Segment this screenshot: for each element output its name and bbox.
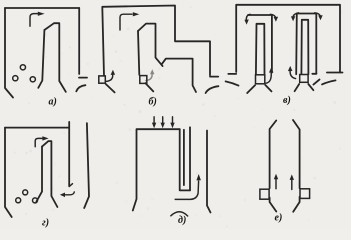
svg-text:а): а) bbox=[49, 97, 57, 108]
diagram a) outer wall left with flare bbox=[5, 8, 13, 98]
diagram e) up arrow 2 bbox=[291, 180, 293, 190]
diagram g) inner tube left bbox=[36, 147, 42, 202]
diagram g) wall end tick bbox=[69, 184, 72, 187]
diagram v) cleanout box tube2 bbox=[300, 75, 308, 83]
diagram d) inner channel v2 bbox=[183, 130, 185, 185]
diagram e) left wall lower bbox=[270, 198, 277, 212]
diagram v) up arrow unit1 bbox=[266, 73, 271, 84]
diagram v) cap1 right wall bbox=[271, 15, 273, 73]
diagram d) down arrows bbox=[153, 117, 155, 123]
diagram v) dash left bbox=[226, 81, 239, 85]
svg-text:д): д) bbox=[178, 215, 186, 226]
diagram d) right wall bbox=[207, 131, 211, 213]
diagram v) foot right bbox=[327, 72, 343, 74]
diagram b) cleanout box left bbox=[99, 76, 106, 83]
diagram d) left wall bbox=[133, 129, 137, 210]
diagram v) flares below tube1 bbox=[247, 85, 255, 93]
diagram g) channel left wall bbox=[68, 122, 70, 186]
diagram a) outer wall top bbox=[5, 7, 79, 9]
diagram a) inner tube left wall bbox=[38, 30, 44, 88]
diagram d) inner channel v3 bbox=[189, 127, 191, 190]
diagram e) left wall bbox=[270, 121, 277, 189]
diagram b) flow arrow top bbox=[120, 14, 132, 30]
diagram v) cap2 flare bbox=[313, 80, 319, 85]
diagram e) right cleanout box bbox=[300, 189, 310, 199]
diagram b) outer wall bbox=[102, 6, 210, 76]
diagram v) foot left bbox=[228, 73, 236, 75]
diagram a) stones circles bbox=[13, 76, 18, 81]
diagram b) hook arrow left bbox=[107, 75, 113, 82]
svg-text:в): в) bbox=[283, 95, 291, 106]
diagram v) cleanout box tube1 bbox=[256, 75, 265, 84]
diagram a) outer wall right bbox=[78, 8, 80, 74]
diagram v) cap2 down arrow left bbox=[293, 13, 299, 18]
diagram g) bottom arrow left bbox=[64, 192, 74, 195]
diagram d) up arrow bbox=[175, 181, 198, 199]
diagram a) flow arrow bbox=[30, 14, 39, 27]
diagram e) right wall lower bbox=[293, 197, 299, 212]
diagram v) cap2 down arrow right bbox=[315, 13, 321, 17]
diagram e) right wall bbox=[293, 120, 300, 188]
diagram e) left cleanout box bbox=[260, 189, 269, 199]
diagram a) inner tube right wall bbox=[44, 23, 65, 92]
diagram v) flare right bbox=[322, 80, 336, 84]
diagram a) outlet curve bbox=[76, 85, 85, 91]
svg-text:е): е) bbox=[275, 213, 283, 224]
diagram b) inner tube bbox=[138, 24, 163, 67]
diagram g) channel right wall bbox=[84, 123, 89, 208]
diagram v) cap2 right wall bbox=[315, 14, 317, 74]
diagram v) up arrow unit2 bbox=[290, 71, 296, 79]
diagram v) cap2 top bbox=[297, 13, 317, 15]
diagram b) hook arrow middle bbox=[146, 69, 155, 80]
diagram g) outer wall top bbox=[5, 127, 69, 129]
diagram b) flare below middle box bbox=[145, 83, 153, 91]
diagram d) box top bbox=[137, 128, 180, 130]
svg-text:г): г) bbox=[42, 218, 49, 229]
diagram b) outlet flare bbox=[206, 86, 219, 93]
diagram v) cap1 down arrow right bbox=[270, 14, 275, 18]
diagram b) outlet foot bbox=[210, 76, 218, 78]
diagram v) flares below tube2 bbox=[295, 84, 300, 91]
diagram b) flare below left box bbox=[106, 84, 115, 93]
diagram v) outer wall bbox=[236, 5, 340, 73]
diagram d) inner channel v1 with bottom bbox=[180, 129, 190, 190]
diagram g) inner tube right bbox=[42, 141, 57, 207]
diagram g) stones circles bbox=[23, 190, 28, 195]
diagram e) up arrow 1 bbox=[275, 179, 277, 189]
diagram v) tube2 bbox=[301, 20, 308, 74]
diagram v) cap1 top bbox=[248, 14, 272, 16]
diagram g) outer wall left bbox=[5, 128, 12, 217]
diagram b) inner baffle wall bbox=[162, 59, 196, 92]
diagram g) flow arrow top bbox=[35, 138, 42, 146]
svg-text:б): б) bbox=[149, 97, 157, 108]
diagram v) cap1 down arrow left bbox=[246, 14, 250, 20]
diagram b) cleanout box middle bbox=[140, 76, 147, 84]
diagram v) cap2 foot bbox=[312, 73, 316, 75]
diagram d) bottom arc bbox=[171, 212, 188, 216]
diagram v) cap2 left wall bbox=[295, 14, 298, 75]
diagram a) outlet dash bbox=[79, 77, 87, 79]
diagram v) tube1 bbox=[256, 24, 265, 75]
